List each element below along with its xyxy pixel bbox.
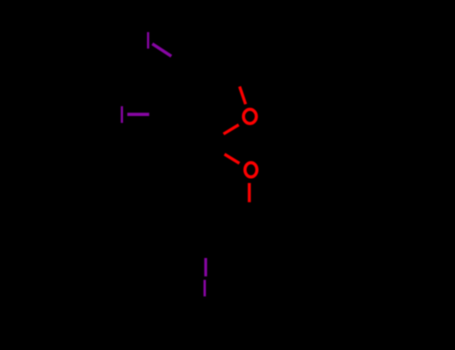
bond I1-C4 (iodine half, wire) xyxy=(152,44,171,56)
oxygen O1 label (ring O, upper) xyxy=(243,109,256,123)
bond O2-C6 downward (oxygen half, wire) xyxy=(248,183,251,202)
bond I2-C3 (iodine half, wire) xyxy=(127,113,149,116)
bond I3-C6 vertical (iodine half, wire) xyxy=(204,258,207,276)
oxygen O2 label (lower) xyxy=(245,163,257,177)
bond O1-C2 lower-left (oxygen half, wire) xyxy=(224,125,239,134)
iodine I3 label (bottom) xyxy=(204,280,206,297)
iodine I2 label (left) xyxy=(121,106,123,123)
bond O2-C3a upper-left (oxygen half, wire) xyxy=(225,154,240,163)
bond O1-C5 upper (oxygen half, wire) xyxy=(240,87,246,105)
iodine I1 label (top) xyxy=(147,32,149,49)
